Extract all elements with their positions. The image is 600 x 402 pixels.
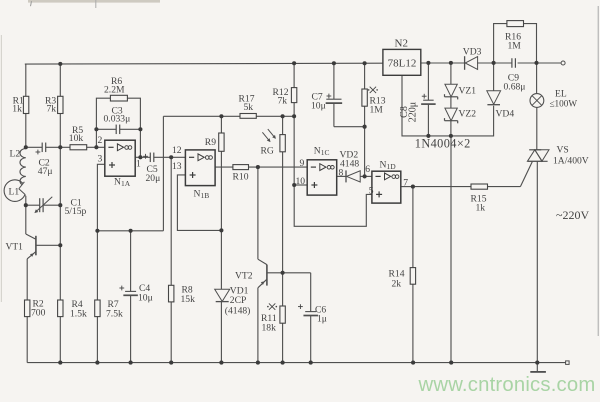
svg-text:R9: R9 [205, 137, 216, 148]
svg-text:N1C: N1C [314, 146, 330, 158]
svg-text:2: 2 [98, 135, 103, 146]
svg-text:1k: 1k [476, 203, 486, 214]
svg-text:0.68μ: 0.68μ [504, 82, 526, 93]
svg-text:15k: 15k [181, 294, 196, 305]
svg-text:4148: 4148 [340, 159, 359, 170]
svg-text:≤100W: ≤100W [550, 99, 578, 109]
svg-text:2k: 2k [392, 279, 402, 290]
svg-text:78L12: 78L12 [388, 58, 417, 70]
svg-text:0.033μ: 0.033μ [104, 114, 131, 125]
svg-text:220μ: 220μ [408, 102, 419, 122]
svg-text:R10: R10 [233, 172, 249, 183]
svg-text:N1D: N1D [380, 160, 397, 172]
svg-text:N1A: N1A [114, 177, 131, 189]
svg-text:VZ1: VZ1 [459, 86, 477, 97]
svg-text:VT1: VT1 [6, 243, 24, 253]
svg-text:7k: 7k [47, 104, 57, 115]
svg-text:5/15p: 5/15p [65, 206, 87, 217]
svg-text:3: 3 [98, 154, 103, 165]
svg-text:www.cntronics.com: www.cntronics.com [418, 374, 596, 396]
svg-text:47μ: 47μ [38, 166, 53, 177]
svg-text:5: 5 [369, 186, 374, 197]
svg-text:N1B: N1B [194, 189, 210, 201]
svg-text:9: 9 [300, 158, 305, 169]
svg-text:RG: RG [261, 146, 274, 157]
svg-text:1M: 1M [370, 105, 384, 116]
svg-text:VT2: VT2 [235, 271, 253, 282]
svg-text:2.2M: 2.2M [104, 85, 125, 96]
svg-text:1: 1 [136, 159, 141, 170]
svg-text:10: 10 [296, 176, 306, 187]
svg-text:20μ: 20μ [146, 173, 161, 184]
svg-text:VD3: VD3 [463, 47, 482, 58]
svg-text:N2: N2 [395, 38, 408, 50]
svg-text:L1: L1 [9, 187, 20, 198]
svg-text:7: 7 [403, 178, 408, 189]
svg-text:7k: 7k [278, 96, 288, 107]
svg-text:~220V: ~220V [556, 208, 589, 222]
svg-text:1N4004×2: 1N4004×2 [415, 137, 471, 151]
svg-text:VZ2: VZ2 [459, 109, 477, 120]
svg-text:12: 12 [172, 145, 182, 156]
svg-text:13: 13 [172, 161, 182, 172]
svg-text:700: 700 [31, 308, 46, 319]
svg-text:10μ: 10μ [138, 293, 153, 304]
svg-text:VS: VS [557, 145, 569, 156]
svg-text:10k: 10k [69, 133, 84, 144]
svg-text:1A/400V: 1A/400V [553, 156, 589, 167]
svg-text:6: 6 [365, 164, 370, 175]
svg-text:2CP: 2CP [230, 295, 247, 306]
svg-text:7.5k: 7.5k [106, 309, 123, 320]
svg-text:L2: L2 [10, 149, 21, 160]
svg-text:1k: 1k [12, 103, 22, 114]
svg-text:VD4: VD4 [496, 109, 515, 120]
svg-text:5k: 5k [244, 102, 254, 113]
svg-text:1μ: 1μ [317, 314, 327, 325]
svg-text:1M: 1M [508, 41, 522, 52]
svg-text:18k: 18k [262, 323, 277, 334]
svg-text:(4148): (4148) [225, 306, 251, 317]
svg-text:10μ: 10μ [311, 101, 326, 112]
svg-text:1.5k: 1.5k [70, 309, 87, 320]
